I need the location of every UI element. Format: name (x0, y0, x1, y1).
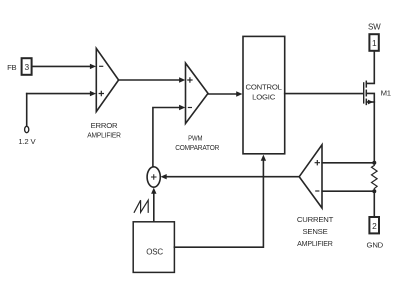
svg-text:SENSE: SENSE (302, 227, 327, 236)
label CONTROL LOGIC (246, 83, 283, 102)
summing node (+) (147, 167, 160, 187)
svg-text:CONTROL: CONTROL (246, 83, 283, 92)
svg-text:PWM: PWM (188, 134, 202, 143)
op-amp error amplifier (96, 48, 118, 111)
svg-text:GND: GND (367, 240, 384, 249)
svg-text:M1: M1 (381, 88, 391, 97)
junction dot bottom of sense resistor (372, 189, 376, 193)
svg-text:FB: FB (7, 63, 16, 72)
wire resistor top to current sense amplifier + input (322, 162, 374, 164)
svg-text:1: 1 (372, 38, 377, 48)
control logic box (243, 36, 285, 153)
wire control logic output to MOSFET gate (285, 93, 363, 95)
wire resistor to GND pin (373, 191, 375, 217)
svg-text:CURRENT: CURRENT (297, 215, 334, 224)
label CURRENT SENSE AMPLIFIER (297, 215, 334, 248)
oscillator OSC box (133, 222, 174, 273)
node 1.2 V reference (18, 94, 36, 147)
label ERROR AMPLIFIER (87, 121, 121, 139)
label M1 (381, 88, 391, 97)
svg-text:COMPARATOR: COMPARATOR (175, 143, 220, 152)
wire resistor bottom to current sense amplifier - input (322, 190, 374, 192)
svg-text:AMPLIFIER: AMPLIFIER (297, 239, 333, 248)
wire PWM comparator inverting input from summing node (153, 105, 185, 167)
svg-text:OSC: OSC (146, 248, 163, 257)
resistor current sense (372, 163, 378, 191)
svg-text:ERROR: ERROR (91, 121, 118, 130)
wire oscillator output to control logic bottom (174, 155, 266, 248)
svg-text:AMPLIFIER: AMPLIFIER (87, 131, 121, 140)
node GND label (367, 240, 384, 249)
wire oscillator to summing node (151, 188, 156, 222)
wire current sense amplifier output to summing node (161, 174, 300, 179)
wire FB to error amplifier inverting input (33, 64, 97, 69)
label PWM COMPARATOR (175, 134, 220, 152)
pin 3 box (FB) (22, 58, 32, 75)
svg-text:LOGIC: LOGIC (252, 93, 276, 102)
wire error amplifier output to PWM comparator non-inverting input (119, 77, 186, 82)
wire 1.2V to error amplifier non-inverting input (27, 91, 96, 96)
svg-text:1.2 V: 1.2 V (18, 137, 36, 146)
junction dot top of sense resistor (372, 161, 376, 165)
pin 2 box (GND) (369, 217, 379, 233)
svg-text:SW: SW (368, 23, 381, 32)
comparator PWM (186, 63, 209, 123)
node SW label (368, 23, 381, 32)
svg-text:2: 2 (372, 221, 377, 231)
sawtooth ramp symbol (134, 200, 148, 212)
pin 1 box (SW) (369, 34, 378, 51)
node FB label (7, 63, 16, 72)
svg-text:3: 3 (24, 62, 29, 72)
transistor M1 MOSFET (364, 52, 375, 163)
op-amp current sense amplifier (299, 145, 322, 208)
wire PWM comparator output to control logic (208, 91, 242, 96)
